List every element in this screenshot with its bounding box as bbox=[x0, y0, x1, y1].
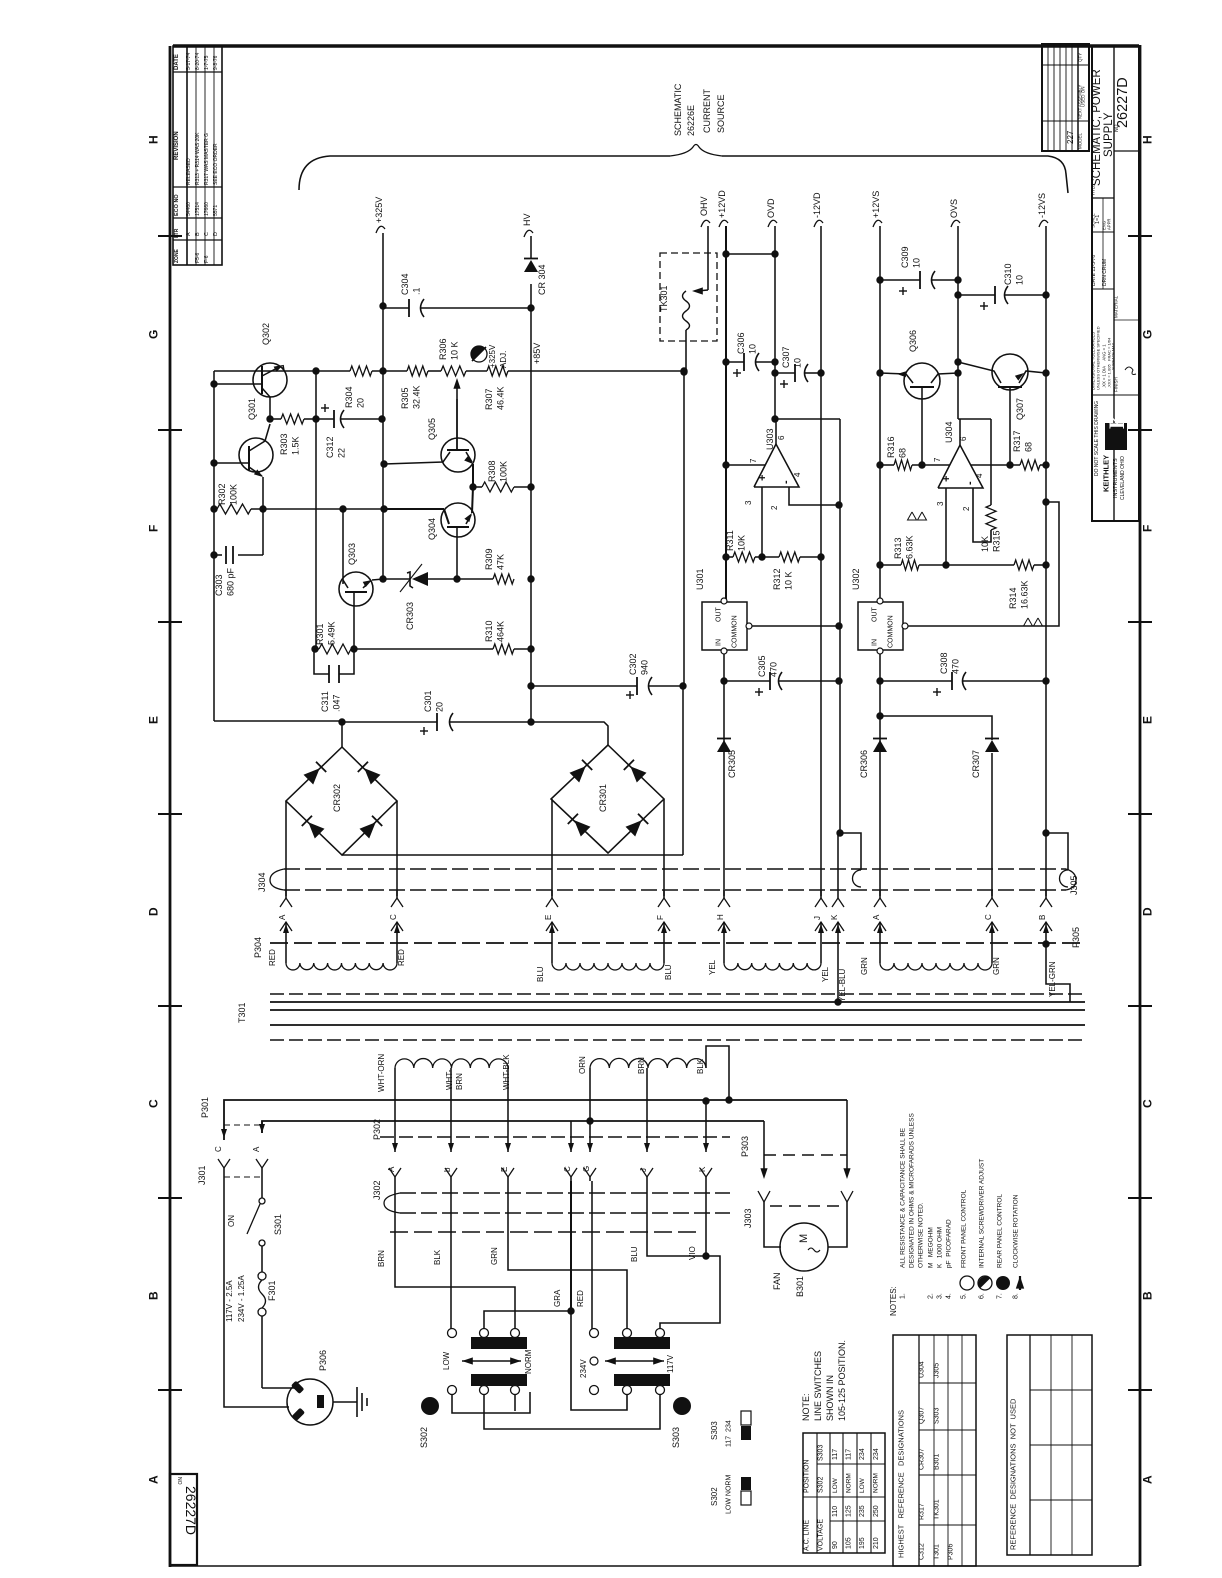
svg-text:117V: 117V bbox=[666, 1354, 675, 1373]
svg-text:10: 10 bbox=[748, 344, 758, 354]
svg-text:46.4K: 46.4K bbox=[496, 386, 506, 410]
svg-text:R317: R317 bbox=[919, 1503, 926, 1520]
svg-text:LOW NORM: LOW NORM bbox=[726, 1475, 733, 1514]
svg-text:G: G bbox=[1140, 330, 1154, 339]
svg-text:J301: J301 bbox=[197, 1165, 207, 1185]
wire OHV down bbox=[707, 226, 709, 290]
svg-text:234: 234 bbox=[873, 1448, 880, 1460]
wire U302 common to -12VS bbox=[908, 502, 1059, 626]
svg-text:Q301: Q301 bbox=[247, 398, 257, 420]
diode CR306 bbox=[873, 740, 887, 752]
svg-text:5.: 5. bbox=[961, 1293, 968, 1299]
svg-text:464K: 464K bbox=[496, 621, 506, 642]
svg-text:10 K: 10 K bbox=[784, 571, 794, 590]
svg-text:BRN: BRN bbox=[377, 1250, 386, 1267]
svg-text:R311: R311 bbox=[725, 530, 735, 551]
wire top rail +85V bbox=[214, 370, 350, 372]
svg-text:105-125 POSITION.: 105-125 POSITION. bbox=[837, 1340, 847, 1421]
svg-text:A.C. LINE: A.C. LINE bbox=[804, 1520, 811, 1551]
resistor R316 bbox=[880, 464, 894, 466]
svg-text:NO: NO bbox=[176, 1477, 182, 1485]
transistor Q306 bbox=[904, 363, 940, 399]
svg-text:22: 22 bbox=[337, 448, 347, 458]
wire +325V rail bbox=[382, 233, 384, 371]
svg-text:C307: C307 bbox=[781, 346, 791, 368]
wire RED to switch bbox=[591, 1181, 593, 1329]
wire U303 pin3 bbox=[761, 487, 763, 557]
thermal cutout TK301 bbox=[660, 253, 717, 341]
svg-text:DATE 11-5-76: DATE 11-5-76 bbox=[1091, 255, 1097, 286]
svg-text:U304: U304 bbox=[944, 421, 954, 443]
svg-text:NOTE:: NOTE: bbox=[801, 1393, 811, 1421]
svg-text:SCHEMATIC: SCHEMATIC bbox=[673, 83, 683, 136]
svg-text:234V - 1.25A: 234V - 1.25A bbox=[237, 1275, 246, 1322]
svg-text:26227D: 26227D bbox=[1115, 77, 1131, 128]
svg-text:P306: P306 bbox=[948, 1544, 955, 1560]
svg-text:RED: RED bbox=[268, 949, 277, 966]
svg-text:T301: T301 bbox=[237, 1002, 247, 1023]
wire U301 common bbox=[752, 625, 839, 627]
svg-text:R304: R304 bbox=[344, 386, 354, 408]
svg-text:C: C bbox=[214, 1146, 223, 1152]
svg-text:C306: C306 bbox=[736, 332, 746, 354]
svg-text:A: A bbox=[278, 914, 287, 920]
capacitor C309 bbox=[880, 279, 920, 281]
svg-text:Q307: Q307 bbox=[1015, 398, 1025, 420]
svg-text:BLU: BLU bbox=[630, 1246, 639, 1262]
svg-text:B: B bbox=[1038, 915, 1047, 920]
svg-text:-12VS: -12VS bbox=[1037, 193, 1047, 218]
title text SCHEMATIC POWER SUPPLY bbox=[1092, 197, 1114, 199]
svg-text:3: 3 bbox=[744, 500, 753, 505]
svg-text:WHT-BLK: WHT-BLK bbox=[502, 1054, 511, 1090]
svg-text:54460: 54460 bbox=[186, 202, 192, 216]
svg-text:F: F bbox=[656, 915, 665, 920]
svg-text:DESIGNATED IN OHMS & MICROFARA: DESIGNATED IN OHMS & MICROFARADS UNLESS bbox=[908, 1113, 915, 1268]
svg-text:1-7-75: 1-7-75 bbox=[204, 55, 210, 70]
svg-text:ORN: ORN bbox=[578, 1056, 587, 1074]
wire bridge negative link bbox=[342, 854, 683, 856]
svg-text:+325V: +325V bbox=[488, 344, 497, 368]
terminal +325V bbox=[376, 226, 385, 233]
svg-text:LOW: LOW bbox=[442, 1351, 451, 1370]
svg-text:D: D bbox=[146, 907, 160, 916]
wire CR301 right to J304-F bbox=[663, 799, 665, 896]
capacitor C308 bbox=[880, 680, 952, 682]
svg-text:C301: C301 bbox=[423, 690, 433, 712]
svg-text:RED: RED bbox=[397, 949, 406, 966]
potentiometer R306 bbox=[441, 366, 466, 376]
svg-text:A: A bbox=[1140, 1475, 1154, 1484]
svg-text:-12VD: -12VD bbox=[812, 192, 822, 218]
svg-text:4: 4 bbox=[793, 472, 802, 477]
svg-text:B: B bbox=[1140, 1291, 1154, 1300]
svg-text:3: 3 bbox=[936, 501, 945, 506]
svg-text:C: C bbox=[389, 914, 398, 920]
svg-text:117: 117 bbox=[846, 1449, 853, 1460]
svg-text:R313 + R314 WAS 20K: R313 + R314 WAS 20K bbox=[195, 132, 201, 185]
svg-text:R305: R305 bbox=[400, 387, 410, 409]
svg-text:BRN: BRN bbox=[455, 1073, 464, 1090]
table reference designations not used bbox=[1007, 1335, 1092, 1555]
tolerance block bbox=[1092, 394, 1114, 396]
svg-text:SUPPLY: SUPPLY bbox=[1103, 112, 1115, 157]
resistor R312 bbox=[762, 556, 779, 558]
svg-text:1.: 1. bbox=[900, 1293, 907, 1299]
svg-text:ON: ON bbox=[227, 1215, 236, 1227]
svg-text:A: A bbox=[146, 1475, 160, 1484]
svg-text:C: C bbox=[984, 914, 993, 920]
svg-text:6: 6 bbox=[777, 435, 786, 440]
wire U301 in down bbox=[723, 654, 725, 896]
svg-text:-: - bbox=[780, 480, 792, 484]
svg-text:U302: U302 bbox=[851, 568, 861, 590]
svg-text:R312: R312 bbox=[772, 568, 782, 590]
svg-text:CR306: CR306 bbox=[859, 750, 869, 778]
wire OVS rail bbox=[957, 226, 959, 419]
svg-text:26226E: 26226E bbox=[686, 105, 696, 136]
svg-text:LTR: LTR bbox=[174, 228, 180, 238]
svg-text:OHV: OHV bbox=[699, 196, 709, 216]
svg-text:P301: P301 bbox=[200, 1097, 210, 1118]
svg-text:VIO: VIO bbox=[688, 1246, 697, 1260]
svg-text:4: 4 bbox=[975, 473, 984, 478]
svg-text:WHT-ORN: WHT-ORN bbox=[377, 1054, 386, 1092]
svg-text:CURRENT: CURRENT bbox=[702, 88, 712, 133]
svg-text:HV: HV bbox=[522, 213, 532, 226]
svg-text:C: C bbox=[146, 1099, 160, 1108]
wire BLU VIO to switch bbox=[647, 1181, 720, 1329]
svg-text:B: B bbox=[146, 1291, 160, 1300]
svg-text:68: 68 bbox=[1024, 442, 1034, 452]
svg-text:C312: C312 bbox=[919, 1543, 926, 1560]
resistor R309 bbox=[493, 574, 514, 584]
svg-text:2: 2 bbox=[770, 505, 779, 510]
switch S303 knob bbox=[673, 1397, 691, 1415]
terminal +12VS bbox=[873, 220, 882, 227]
revision table bbox=[173, 46, 222, 265]
svg-text:C308: C308 bbox=[939, 652, 949, 674]
wire CR302 right to J304-C bbox=[396, 801, 398, 896]
resistor R305 bbox=[407, 366, 428, 376]
svg-text:BRN: BRN bbox=[637, 1057, 646, 1074]
svg-text:F: F bbox=[146, 525, 160, 532]
svg-text:LINE SWITCHES: LINE SWITCHES bbox=[813, 1351, 823, 1421]
voltage regulator U301 bbox=[702, 602, 747, 650]
svg-text:S302: S302 bbox=[710, 1487, 719, 1506]
op-amp U303 bbox=[754, 444, 799, 487]
svg-text:R316: R316 bbox=[886, 436, 896, 458]
diode CR305 bbox=[717, 740, 731, 752]
scale and approvals cells bbox=[1092, 231, 1114, 233]
bridge CR302 bbox=[286, 747, 397, 855]
bridge CR301 bbox=[551, 745, 664, 853]
svg-text:A: A bbox=[252, 1146, 261, 1152]
svg-text:J: J bbox=[813, 916, 822, 920]
connector J302 shell bbox=[384, 1193, 400, 1213]
material finish cells bbox=[1114, 319, 1139, 321]
resistor R315 bbox=[990, 419, 992, 505]
svg-text:GRN: GRN bbox=[490, 1247, 499, 1265]
terminal -12VS bbox=[1039, 220, 1048, 227]
svg-text:UNLESS OTHERWISE SPECIFIED: UNLESS OTHERWISE SPECIFIED bbox=[1095, 326, 1100, 390]
primary winding 1 WHT bbox=[395, 1059, 508, 1068]
svg-text:10K: 10K bbox=[980, 536, 990, 552]
op-amp U304 bbox=[938, 445, 983, 488]
terminal -12VD bbox=[814, 220, 823, 227]
secondary winding BLU bbox=[551, 940, 553, 963]
svg-text:R309: R309 bbox=[484, 548, 494, 570]
svg-text:BLU: BLU bbox=[536, 966, 545, 982]
svg-text:CR301: CR301 bbox=[598, 784, 608, 812]
svg-text:NOTES:: NOTES: bbox=[889, 1286, 898, 1316]
svg-text:D: D bbox=[213, 232, 219, 236]
svg-text:SCHEMATIC, POWER: SCHEMATIC, POWER bbox=[1091, 69, 1103, 186]
svg-text:C: C bbox=[1140, 1099, 1154, 1108]
svg-text:GRN: GRN bbox=[860, 957, 869, 975]
wire -12VD rail bbox=[820, 226, 822, 896]
svg-text:Q307: Q307 bbox=[919, 1407, 926, 1424]
svg-text:YEL: YEL bbox=[821, 966, 830, 982]
fuse F301 bbox=[261, 1246, 263, 1272]
diode CR304 bbox=[524, 260, 538, 272]
wire J301-C down to plug bbox=[224, 1168, 289, 1407]
svg-text:SURFACE MAX: SURFACE MAX bbox=[1111, 342, 1115, 370]
svg-text:105: 105 bbox=[846, 1537, 853, 1549]
svg-text:KEITHLEY: KEITHLEY bbox=[1102, 455, 1111, 492]
svg-text:C309: C309 bbox=[900, 246, 910, 268]
svg-text:YEL: YEL bbox=[708, 959, 717, 975]
svg-text:J302: J302 bbox=[372, 1180, 382, 1200]
ground symbol bbox=[356, 1387, 358, 1417]
svg-text:1=1: 1=1 bbox=[1095, 215, 1101, 224]
svg-text:ADJ.: ADJ. bbox=[499, 351, 508, 368]
svg-text:17660: 17660 bbox=[204, 202, 210, 216]
svg-text:DO NOT SCALE THIS DRAWING: DO NOT SCALE THIS DRAWING bbox=[1094, 401, 1100, 476]
svg-text:117 234: 117 234 bbox=[726, 1420, 733, 1447]
svg-text:17514: 17514 bbox=[195, 202, 201, 216]
svg-text:E: E bbox=[146, 716, 160, 724]
P304 dashed line bbox=[270, 942, 1085, 944]
svg-text:B: B bbox=[195, 232, 201, 236]
wire CR302 left to J304-A bbox=[285, 801, 287, 896]
svg-text:REAR PANEL CONTROL: REAR PANEL CONTROL bbox=[996, 1194, 1003, 1268]
svg-text:INTERNAL SCREWDRIVER ADJUST: INTERNAL SCREWDRIVER ADJUST bbox=[978, 1159, 985, 1268]
svg-text:H: H bbox=[1140, 135, 1154, 144]
svg-text:1.5K: 1.5K bbox=[291, 436, 301, 455]
svg-text:+325V: +325V bbox=[374, 197, 384, 223]
svg-text:REFERENCE DESIGNATIONS NOT: REFERENCE DESIGNATIONS NOT USED bbox=[1009, 1398, 1018, 1550]
svg-text:INSTRUMENTS: INSTRUMENTS bbox=[1113, 458, 1119, 498]
svg-text:Q304: Q304 bbox=[427, 518, 437, 540]
svg-text:+12VD: +12VD bbox=[717, 190, 727, 218]
resistor R310 bbox=[354, 648, 493, 650]
fan motor B301 bbox=[764, 1202, 781, 1247]
J304 pins bbox=[285, 890, 287, 898]
svg-text:RED: RED bbox=[576, 1290, 585, 1307]
wire U303 pin7 bbox=[726, 464, 765, 466]
svg-text:10: 10 bbox=[912, 258, 922, 268]
wire C301 line to CR301 bbox=[531, 722, 608, 745]
resistor R308 bbox=[473, 486, 482, 488]
svg-text:235: 235 bbox=[859, 1505, 866, 1517]
capacitor C303 bbox=[214, 554, 222, 556]
svg-text:R307: R307 bbox=[484, 388, 494, 410]
title block model grid bbox=[1042, 44, 1089, 151]
zener CR303 bbox=[383, 578, 410, 580]
svg-text:16.63K: 16.63K bbox=[1020, 580, 1030, 609]
svg-text:SHOWN IN: SHOWN IN bbox=[825, 1375, 835, 1421]
svg-text:RELEASED: RELEASED bbox=[186, 158, 192, 185]
svg-text:+12VS: +12VS bbox=[871, 191, 881, 218]
title block outline bbox=[1092, 46, 1139, 521]
svg-text:E: E bbox=[544, 915, 553, 920]
svg-text:10: 10 bbox=[793, 358, 803, 368]
wire U303 pin6 output to OVD bbox=[775, 419, 777, 444]
svg-text:C312: C312 bbox=[325, 436, 335, 458]
svg-text:195: 195 bbox=[859, 1537, 866, 1549]
wire -12VS rail bbox=[1045, 226, 1047, 896]
svg-text:M MEGOHM: M MEGOHM bbox=[927, 1227, 934, 1268]
wire OVD rail bbox=[774, 226, 776, 419]
svg-text:C: C bbox=[204, 232, 210, 236]
connector shell bump left bbox=[853, 870, 862, 887]
svg-text:C304: C304 bbox=[400, 273, 410, 295]
svg-text:MODEL: MODEL bbox=[1078, 133, 1083, 150]
Keithley logo bbox=[1105, 423, 1127, 450]
svg-text:26227D: 26227D bbox=[183, 1486, 199, 1535]
svg-text:REVISION: REVISION bbox=[174, 131, 180, 160]
svg-text:S303: S303 bbox=[934, 1408, 941, 1424]
svg-text:ZONE: ZONE bbox=[174, 248, 180, 263]
svg-text:R302: R302 bbox=[217, 483, 227, 505]
svg-text:P305: P305 bbox=[1071, 927, 1081, 948]
zone ticks right bbox=[1128, 235, 1152, 237]
svg-text:GRA: GRA bbox=[553, 1289, 562, 1307]
svg-text:117: 117 bbox=[832, 1449, 839, 1460]
wire U304 pin3 bbox=[945, 488, 947, 565]
svg-text:U304: U304 bbox=[919, 1361, 926, 1378]
svg-text:R308: R308 bbox=[487, 460, 497, 482]
secondary winding RED bbox=[285, 940, 287, 963]
secondary winding GRN bbox=[879, 940, 881, 963]
svg-text:U301: U301 bbox=[695, 568, 705, 590]
warning triangles note R313 bbox=[908, 512, 917, 520]
wire AC feed line 1 bbox=[224, 1100, 847, 1140]
table AC line position bbox=[803, 1433, 885, 1553]
svg-text:HIGHEST REFERENCE DESIGNAT: HIGHEST REFERENCE DESIGNATIONS bbox=[897, 1410, 906, 1558]
svg-text:NORM: NORM bbox=[524, 1349, 533, 1374]
transistor Q301 bbox=[239, 438, 273, 472]
capacitor C311 bbox=[314, 649, 329, 674]
svg-text:S303: S303 bbox=[710, 1421, 719, 1440]
svg-text:S302: S302 bbox=[419, 1427, 429, 1448]
svg-text:CR305: CR305 bbox=[727, 750, 737, 778]
svg-text:9-8-76: 9-8-76 bbox=[213, 55, 219, 70]
svg-text:J305: J305 bbox=[1069, 875, 1079, 895]
svg-text:5571: 5571 bbox=[213, 205, 219, 216]
capacitor C301 bbox=[214, 720, 342, 722]
off-sheet bracket line to schematic 26226E bbox=[299, 156, 670, 190]
svg-text:S303: S303 bbox=[671, 1427, 681, 1448]
svg-text:S301: S301 bbox=[273, 1214, 283, 1235]
svg-text:CR307: CR307 bbox=[919, 1448, 926, 1470]
capacitor C307 bbox=[775, 372, 795, 374]
svg-text:470: 470 bbox=[769, 662, 779, 677]
svg-text:10: 10 bbox=[1015, 275, 1025, 285]
wire +12VS rail bbox=[879, 226, 881, 599]
wire U302 in down bbox=[879, 654, 881, 896]
svg-text:K: K bbox=[1104, 412, 1129, 429]
svg-text:CR302: CR302 bbox=[332, 784, 342, 812]
wire BRN to switch bbox=[395, 1181, 515, 1329]
svg-text:OUT: OUT bbox=[872, 607, 879, 623]
svg-text:100K: 100K bbox=[499, 461, 509, 482]
switch S301 bbox=[261, 1168, 263, 1198]
wire mid rail 383 down bbox=[382, 371, 384, 579]
dashed line below J302 bbox=[390, 1231, 700, 1233]
wire YEL-GRN down bbox=[1046, 940, 1070, 1002]
zone ticks left bbox=[158, 235, 182, 237]
svg-text:LOW: LOW bbox=[832, 1477, 839, 1493]
svg-text:-: - bbox=[964, 481, 976, 485]
svg-text:5-17-74: 5-17-74 bbox=[186, 53, 192, 70]
svg-text:ALL RESISTANCE & CAPACITANCE S: ALL RESISTANCE & CAPACITANCE SHALL BE bbox=[899, 1127, 906, 1268]
svg-text:K 1000 OHM: K 1000 OHM bbox=[936, 1227, 943, 1268]
switch S302 knob bbox=[421, 1397, 439, 1415]
svg-text:F: F bbox=[1140, 525, 1154, 532]
primary winding 2 bbox=[590, 1058, 706, 1068]
svg-text:K: K bbox=[830, 914, 839, 920]
svg-text:GRN: GRN bbox=[992, 957, 1001, 975]
svg-text:SOURCE: SOURCE bbox=[716, 94, 726, 133]
wire BLK to switch bbox=[450, 1181, 452, 1329]
capacitor C310 bbox=[958, 294, 995, 296]
svg-text:210: 210 bbox=[873, 1537, 880, 1549]
svg-text:C302: C302 bbox=[628, 653, 638, 675]
svg-text:100K: 100K bbox=[229, 484, 239, 505]
capacitor C304 bbox=[383, 307, 409, 309]
svg-text:+85V: +85V bbox=[532, 343, 542, 364]
svg-text:2.: 2. bbox=[928, 1293, 935, 1299]
svg-text:J303: J303 bbox=[743, 1208, 753, 1228]
P304 pins bbox=[285, 922, 287, 940]
svg-text:R315: R315 bbox=[992, 530, 1002, 552]
svg-text:125: 125 bbox=[846, 1505, 853, 1517]
switch S302 assembly bbox=[448, 1329, 457, 1338]
svg-text:68: 68 bbox=[898, 448, 908, 458]
capacitor C306 bbox=[726, 361, 744, 363]
svg-text:.047: .047 bbox=[332, 694, 342, 712]
svg-text:680 pF: 680 pF bbox=[226, 567, 236, 596]
svg-text:IN: IN bbox=[872, 639, 879, 646]
svg-text:7.: 7. bbox=[997, 1293, 1004, 1299]
svg-text:U303: U303 bbox=[765, 428, 775, 450]
svg-text:CR 304: CR 304 bbox=[537, 264, 547, 295]
svg-text:32.4K: 32.4K bbox=[412, 385, 422, 409]
svg-text:H: H bbox=[716, 914, 725, 920]
switch S303 assembly bbox=[590, 1329, 599, 1338]
terminal +12VD bbox=[719, 220, 728, 227]
svg-text:MATERIAL: MATERIAL bbox=[1114, 295, 1119, 318]
svg-text:6.: 6. bbox=[979, 1293, 986, 1299]
AC plug P306 bbox=[287, 1379, 333, 1425]
svg-text:TK301: TK301 bbox=[934, 1499, 941, 1520]
svg-text:BLU: BLU bbox=[664, 964, 673, 980]
svg-text:Q302: Q302 bbox=[261, 323, 271, 345]
svg-text:B301: B301 bbox=[795, 1276, 805, 1297]
svg-text:Q305: Q305 bbox=[427, 418, 437, 440]
